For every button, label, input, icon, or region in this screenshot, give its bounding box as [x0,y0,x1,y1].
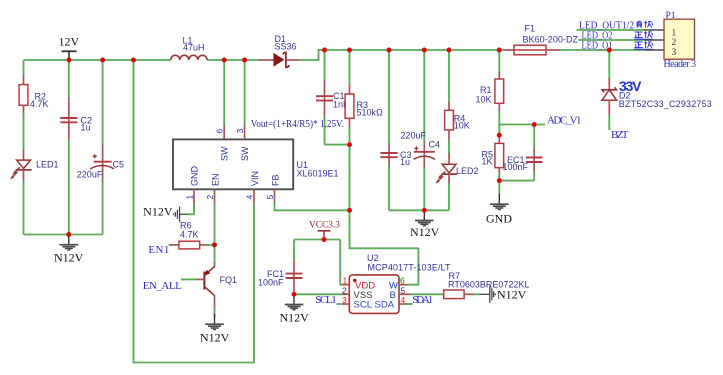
U2 pin 5 [399,285,412,295]
wire R5/EC1 bottom [499,180,534,182]
wire SW pin6 [223,60,225,127]
svg-text:FQ1: FQ1 [220,275,238,285]
capacitor C4 electrolytic [401,50,441,210]
svg-text:2: 2 [205,195,215,200]
power flag N12V at R7 [480,286,527,303]
resistor R5 [482,135,504,180]
svg-text:N12V: N12V [410,225,440,239]
capacitor C5 electrolytic [77,60,124,235]
node junction SW3 [242,58,247,63]
svg-text:1u: 1u [81,123,91,133]
svg-text:ADC_V1: ADC_V1 [547,114,582,126]
node junction C1 rail [322,48,327,53]
svg-text:N12V: N12V [143,205,173,219]
wire VIN loop [134,60,255,363]
net label positive row2 [634,31,653,38]
wire LED_O1 row3 [560,49,646,51]
diode D2 zener BZT52C33 [602,50,712,130]
U1 pin 5 FB [265,174,280,203]
net label LED_OUT1/2 negative [579,20,653,32]
ground GND [486,194,512,225]
svg-text:47uH: 47uH [183,43,205,53]
svg-text:GND: GND [189,166,199,187]
LED LED1 [10,150,59,182]
svg-text:SW: SW [240,146,250,161]
svg-text:VCC3.3: VCC3.3 [309,221,340,231]
svg-text:LED2: LED2 [456,166,479,176]
U1 pin 2 EN [205,173,220,203]
wire D1 cathode to VLED rail [299,50,504,60]
svg-text:4: 4 [245,195,255,200]
power flag 12V [59,35,80,61]
wire FQ1 emitter to ground [214,308,216,318]
svg-text:N12V: N12V [280,311,310,325]
svg-text:2: 2 [672,38,677,48]
svg-text:VIN: VIN [250,171,260,186]
svg-text:SCL: SCL [354,300,372,311]
svg-text:SCL1: SCL1 [315,294,337,306]
U2 pin 2 [342,285,349,295]
svg-text:4: 4 [401,295,406,305]
wire N12V bottom rail [24,234,103,236]
svg-text:GND: GND [486,211,512,225]
svg-text:N12V: N12V [497,288,527,302]
svg-text:FB: FB [270,174,280,186]
resistor R1 [476,50,504,135]
wire R3 bottom to FB [349,145,351,211]
ground N12V middle [410,210,440,239]
node junction EC1 top [532,122,537,127]
wire C1-R3 bridge [325,144,350,146]
capacitor C2 [60,60,92,235]
capacitor C1 [316,50,349,145]
wire pin5 FB to R3 node [275,203,350,211]
node junction EN/R6 [212,242,217,247]
power flag VCC3.3 [309,221,340,240]
net label SDA1 [407,294,434,306]
svg-text:1: 1 [343,276,348,286]
node junction middle ground [422,208,427,213]
svg-text:10K: 10K [476,95,492,105]
svg-text:6: 6 [215,129,225,134]
U1 pin 1 GND [185,166,200,207]
wire R2 to LED1 [23,113,25,151]
svg-text:5: 5 [265,195,275,200]
svg-text:100nF: 100nF [258,278,284,288]
resistor R6 [169,220,215,249]
svg-text:SW: SW [220,146,230,161]
node junction R1/R5 [497,133,502,138]
diode D1 SS36 [259,34,300,67]
svg-text:2: 2 [342,285,347,295]
capacitor FC1 [258,240,303,295]
wire top rail L1-to-D1 [207,59,260,61]
resistor R3 [345,50,383,145]
node junction C1/R3 bottom [347,142,352,147]
svg-text:6: 6 [400,276,405,286]
wire VSS to ground [294,293,342,295]
capacitor C3 [380,50,411,210]
svg-text:1u: 1u [400,157,410,167]
capacitor EC1 [503,125,543,181]
ground N12V left [54,235,84,265]
wire VDD feed [340,240,342,285]
svg-text:U2: U2 [367,253,379,263]
wire LED2 to middle rail [448,183,450,210]
svg-text:BK60-200-DZ: BK60-200-DZ [523,34,579,44]
wire ADC tap [499,124,545,126]
resistor R4 [445,50,470,155]
node junction SW6 [222,58,227,63]
U1 pin 3 SW [235,126,250,162]
svg-text:EN: EN [210,173,220,186]
svg-text:1K: 1K [482,157,493,167]
node junction R4 rail [447,48,452,53]
node junction R5 bottom [497,178,502,183]
node junction C5 [100,58,105,63]
svg-text:XL6019E1: XL6019E1 [297,169,339,179]
svg-text:C4: C4 [429,140,441,150]
node junction VIN loop [131,58,136,63]
svg-text:BZT52C33_C2932753: BZT52C33_C2932753 [619,99,712,109]
resistor R2 [19,60,48,115]
power flag N12V at pin1 [143,205,187,222]
wire pin1 to N12V flag [187,206,194,215]
U2 pin 4 [399,295,408,305]
node junction D2 tap [607,48,612,53]
svg-text:5: 5 [401,285,406,295]
svg-text:LED1: LED1 [36,160,59,170]
wire LED_O2 row2 [578,39,644,41]
fuse F1 [504,24,579,55]
svg-text:SDA: SDA [375,300,395,311]
svg-text:100nF: 100nF [503,162,529,172]
svg-text:P1: P1 [666,11,676,21]
wire SCL stub [337,303,343,305]
wire VCC3.3 rail [294,239,340,241]
wire 12V top rail left [24,59,171,61]
svg-text:220uF: 220uF [77,170,103,180]
svg-text:Header 3: Header 3 [664,59,697,70]
svg-text:3: 3 [672,48,677,58]
IC U2 MCP4017T-103E/LT [349,253,451,313]
svg-text:EN_ALL: EN_ALL [143,280,182,292]
U2 pin 1 [342,276,349,286]
wire middle bottom rail [389,209,449,211]
U1 pin 4 VIN [245,171,260,204]
node junction bottom rail [66,232,71,237]
node junction VCC3.3 [322,237,327,242]
svg-text:220uF: 220uF [401,131,427,141]
svg-text:1: 1 [185,195,195,200]
net label positive row3 [634,41,653,48]
svg-text:510kΩ: 510kΩ [357,108,384,118]
node junction FB [347,208,352,213]
node junction R3 rail [347,48,352,53]
ground N12V at FC1 [280,294,310,324]
U2 pin 6 [399,276,408,286]
LED LED2 [436,154,479,184]
svg-text:SDA1: SDA1 [412,294,433,306]
IC U1 XL6019E1 [173,139,339,189]
svg-text:C5: C5 [113,160,125,170]
svg-text:SS36: SS36 [275,42,297,52]
node junction C3 rail [387,48,392,53]
svg-text:1: 1 [672,28,677,38]
resistor R7 [411,271,530,299]
svg-text:BZT: BZT [611,129,629,141]
wire EN to FQ1 emitter [214,245,216,264]
svg-text:N12V: N12V [54,251,84,265]
wire LED1 to bottom rail [23,181,25,235]
wire LED_OUT row1 [577,29,644,31]
svg-text:3: 3 [342,295,347,305]
svg-text:F1: F1 [525,24,536,34]
U2 pin 3 [342,295,349,305]
node junction 12V/C2 [67,58,72,63]
svg-text:3: 3 [235,129,245,134]
node junction C4 rail [422,48,427,53]
wire pin2 EN down [214,203,216,245]
svg-text:MCP4017T-103E/LT: MCP4017T-103E/LT [368,263,452,273]
U1 pin 6 SW [215,126,230,162]
svg-text:12V: 12V [59,35,80,49]
svg-text:Vout=(1+R4/R5)* 1.25V.: Vout=(1+R4/R5)* 1.25V. [251,118,344,130]
svg-text:N12V: N12V [200,330,230,344]
svg-text:R1: R1 [480,85,492,95]
ground N12V at FQ1 [200,314,230,344]
svg-text:10K: 10K [454,121,470,131]
node junction R1 rail [497,48,502,53]
svg-text:4.7K: 4.7K [30,99,49,109]
transistor FQ1 [204,263,237,309]
node junction FC1/VSS [292,292,297,297]
wire R5 to GND [498,181,500,196]
wire SW pin3 [244,60,246,127]
svg-text:EN1: EN1 [148,244,169,256]
inductor L1 [171,36,207,61]
svg-text:4.7K: 4.7K [180,230,199,240]
wire EN_ALL to base [181,278,204,280]
wire FB node to U2 W pin [350,210,419,284]
connector P1 Header 3 [644,11,697,70]
